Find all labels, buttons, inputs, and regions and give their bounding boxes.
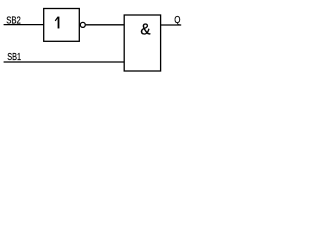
node Q [174,14,180,25]
svg-text:Q: Q [174,14,180,25]
wire [161,24,182,26]
node SB2 [6,15,21,26]
NOT gate U1 [44,9,80,42]
svg-text:SB1: SB1 [7,51,21,62]
svg-text:&: & [140,21,151,38]
wire [86,24,125,26]
inversion bubble [80,22,85,27]
wire [4,24,45,26]
wire [4,61,125,63]
node SB1 [7,51,21,62]
AND gate U2 [124,15,160,71]
